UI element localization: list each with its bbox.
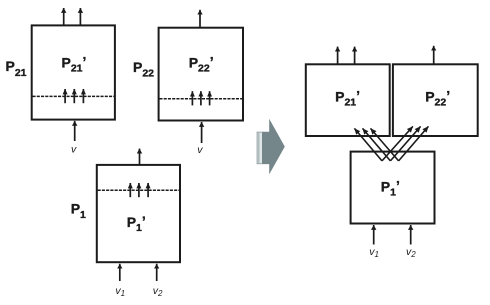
svg-text:v: v <box>197 144 203 156</box>
svg-text:v: v <box>71 144 77 156</box>
